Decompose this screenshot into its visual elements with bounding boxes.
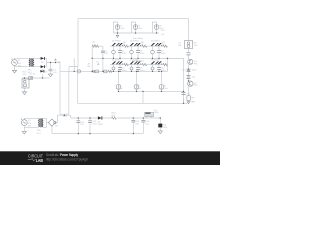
svg-text:Q8 2N3906: Q8 2N3906 — [151, 59, 160, 62]
svg-text:DC Regulator: DC Regulator — [133, 59, 145, 62]
svg-text:100n: 100n — [161, 52, 167, 55]
svg-text:100n: 100n — [140, 52, 146, 55]
svg-text:LED: LED — [163, 126, 168, 129]
svg-text:TIP31: TIP31 — [194, 63, 198, 66]
svg-text:100n: 100n — [122, 69, 128, 72]
svg-text:170A: 170A — [28, 122, 32, 125]
svg-text:Pre-Reg: Pre-Reg — [133, 37, 143, 40]
svg-text:60Hz: 60Hz — [28, 124, 31, 127]
svg-text:100n: 100n — [122, 52, 128, 55]
svg-text:VCC: VCC — [161, 29, 166, 32]
svg-text:100n: 100n — [140, 69, 146, 72]
svg-text:Q7 2N3904: Q7 2N3904 — [151, 39, 160, 42]
svg-text:LM: LM — [178, 44, 181, 47]
svg-text:60Hz: 60Hz — [18, 64, 21, 67]
svg-text:+9V: +9V — [161, 33, 165, 36]
svg-text:1N4001: 1N4001 — [98, 123, 104, 126]
svg-text:Q3 2N3904: Q3 2N3904 — [112, 39, 121, 42]
svg-text:TIP32: TIP32 — [194, 84, 198, 87]
svg-text:470u: 470u — [53, 71, 57, 74]
svg-text:VEE: VEE — [191, 101, 196, 104]
svg-text:100n: 100n — [192, 69, 198, 72]
svg-text:0.5mA: 0.5mA — [138, 27, 142, 30]
svg-text:0.5mA: 0.5mA — [120, 27, 124, 30]
svg-text:http://circuitlab.com/c/7pq4g9: http://circuitlab.com/c/7pq4g9 — [46, 157, 88, 161]
svg-text:LAB: LAB — [36, 158, 44, 164]
svg-text:0.1mA: 0.1mA — [164, 87, 168, 90]
svg-text:470u: 470u — [80, 123, 84, 126]
svg-text:Q4 2N3906: Q4 2N3906 — [112, 59, 121, 62]
svg-text:0.1mA: 0.1mA — [119, 87, 123, 90]
svg-text:7805: 7805 — [154, 111, 160, 114]
svg-text:+5V: +5V — [22, 73, 26, 76]
svg-text:170A: 170A — [18, 62, 22, 65]
svg-text:R2 1k: R2 1k — [30, 72, 37, 75]
svg-text:SW1: SW1 — [63, 115, 68, 118]
svg-text:0.1mA: 0.1mA — [137, 87, 141, 90]
